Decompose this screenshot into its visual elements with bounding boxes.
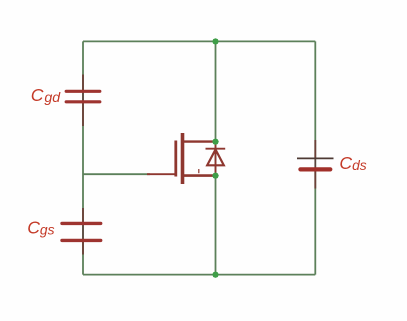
wire right vertical (Cds branch): [314, 41, 316, 274]
source pin tick: [198, 169, 200, 173]
junction dot bottom (source node): [212, 271, 219, 278]
channel bar: [181, 133, 185, 184]
source lead: [184, 174, 216, 177]
wire gate horizontal: [83, 173, 150, 175]
capacitor Cgd: [66, 75, 100, 127]
anode triangle: [207, 150, 224, 166]
label Cgs: [27, 218, 54, 238]
wire bottom (source net): [83, 274, 315, 276]
gate lead (red portion): [147, 173, 176, 175]
cathode bar: [206, 148, 226, 150]
label Cgd: [31, 85, 61, 106]
capacitor Cds: [297, 140, 334, 189]
junction dot top (drain node): [212, 38, 219, 45]
wire left vertical (gate branch): [82, 41, 84, 274]
body diode D1: [206, 142, 226, 176]
gate bar: [174, 141, 177, 177]
through lead: [215, 142, 217, 176]
capacitor Cgs: [62, 208, 101, 255]
wire center vertical (drain-source through MOSFET): [215, 41, 217, 274]
junction dot MOSFET drain: [212, 138, 219, 145]
junction dot MOSFET source: [212, 172, 219, 179]
drain lead: [184, 140, 216, 142]
label Cds: [339, 153, 366, 173]
wire top (drain net): [83, 40, 315, 42]
n-channel MOSFET M1: [147, 133, 216, 184]
